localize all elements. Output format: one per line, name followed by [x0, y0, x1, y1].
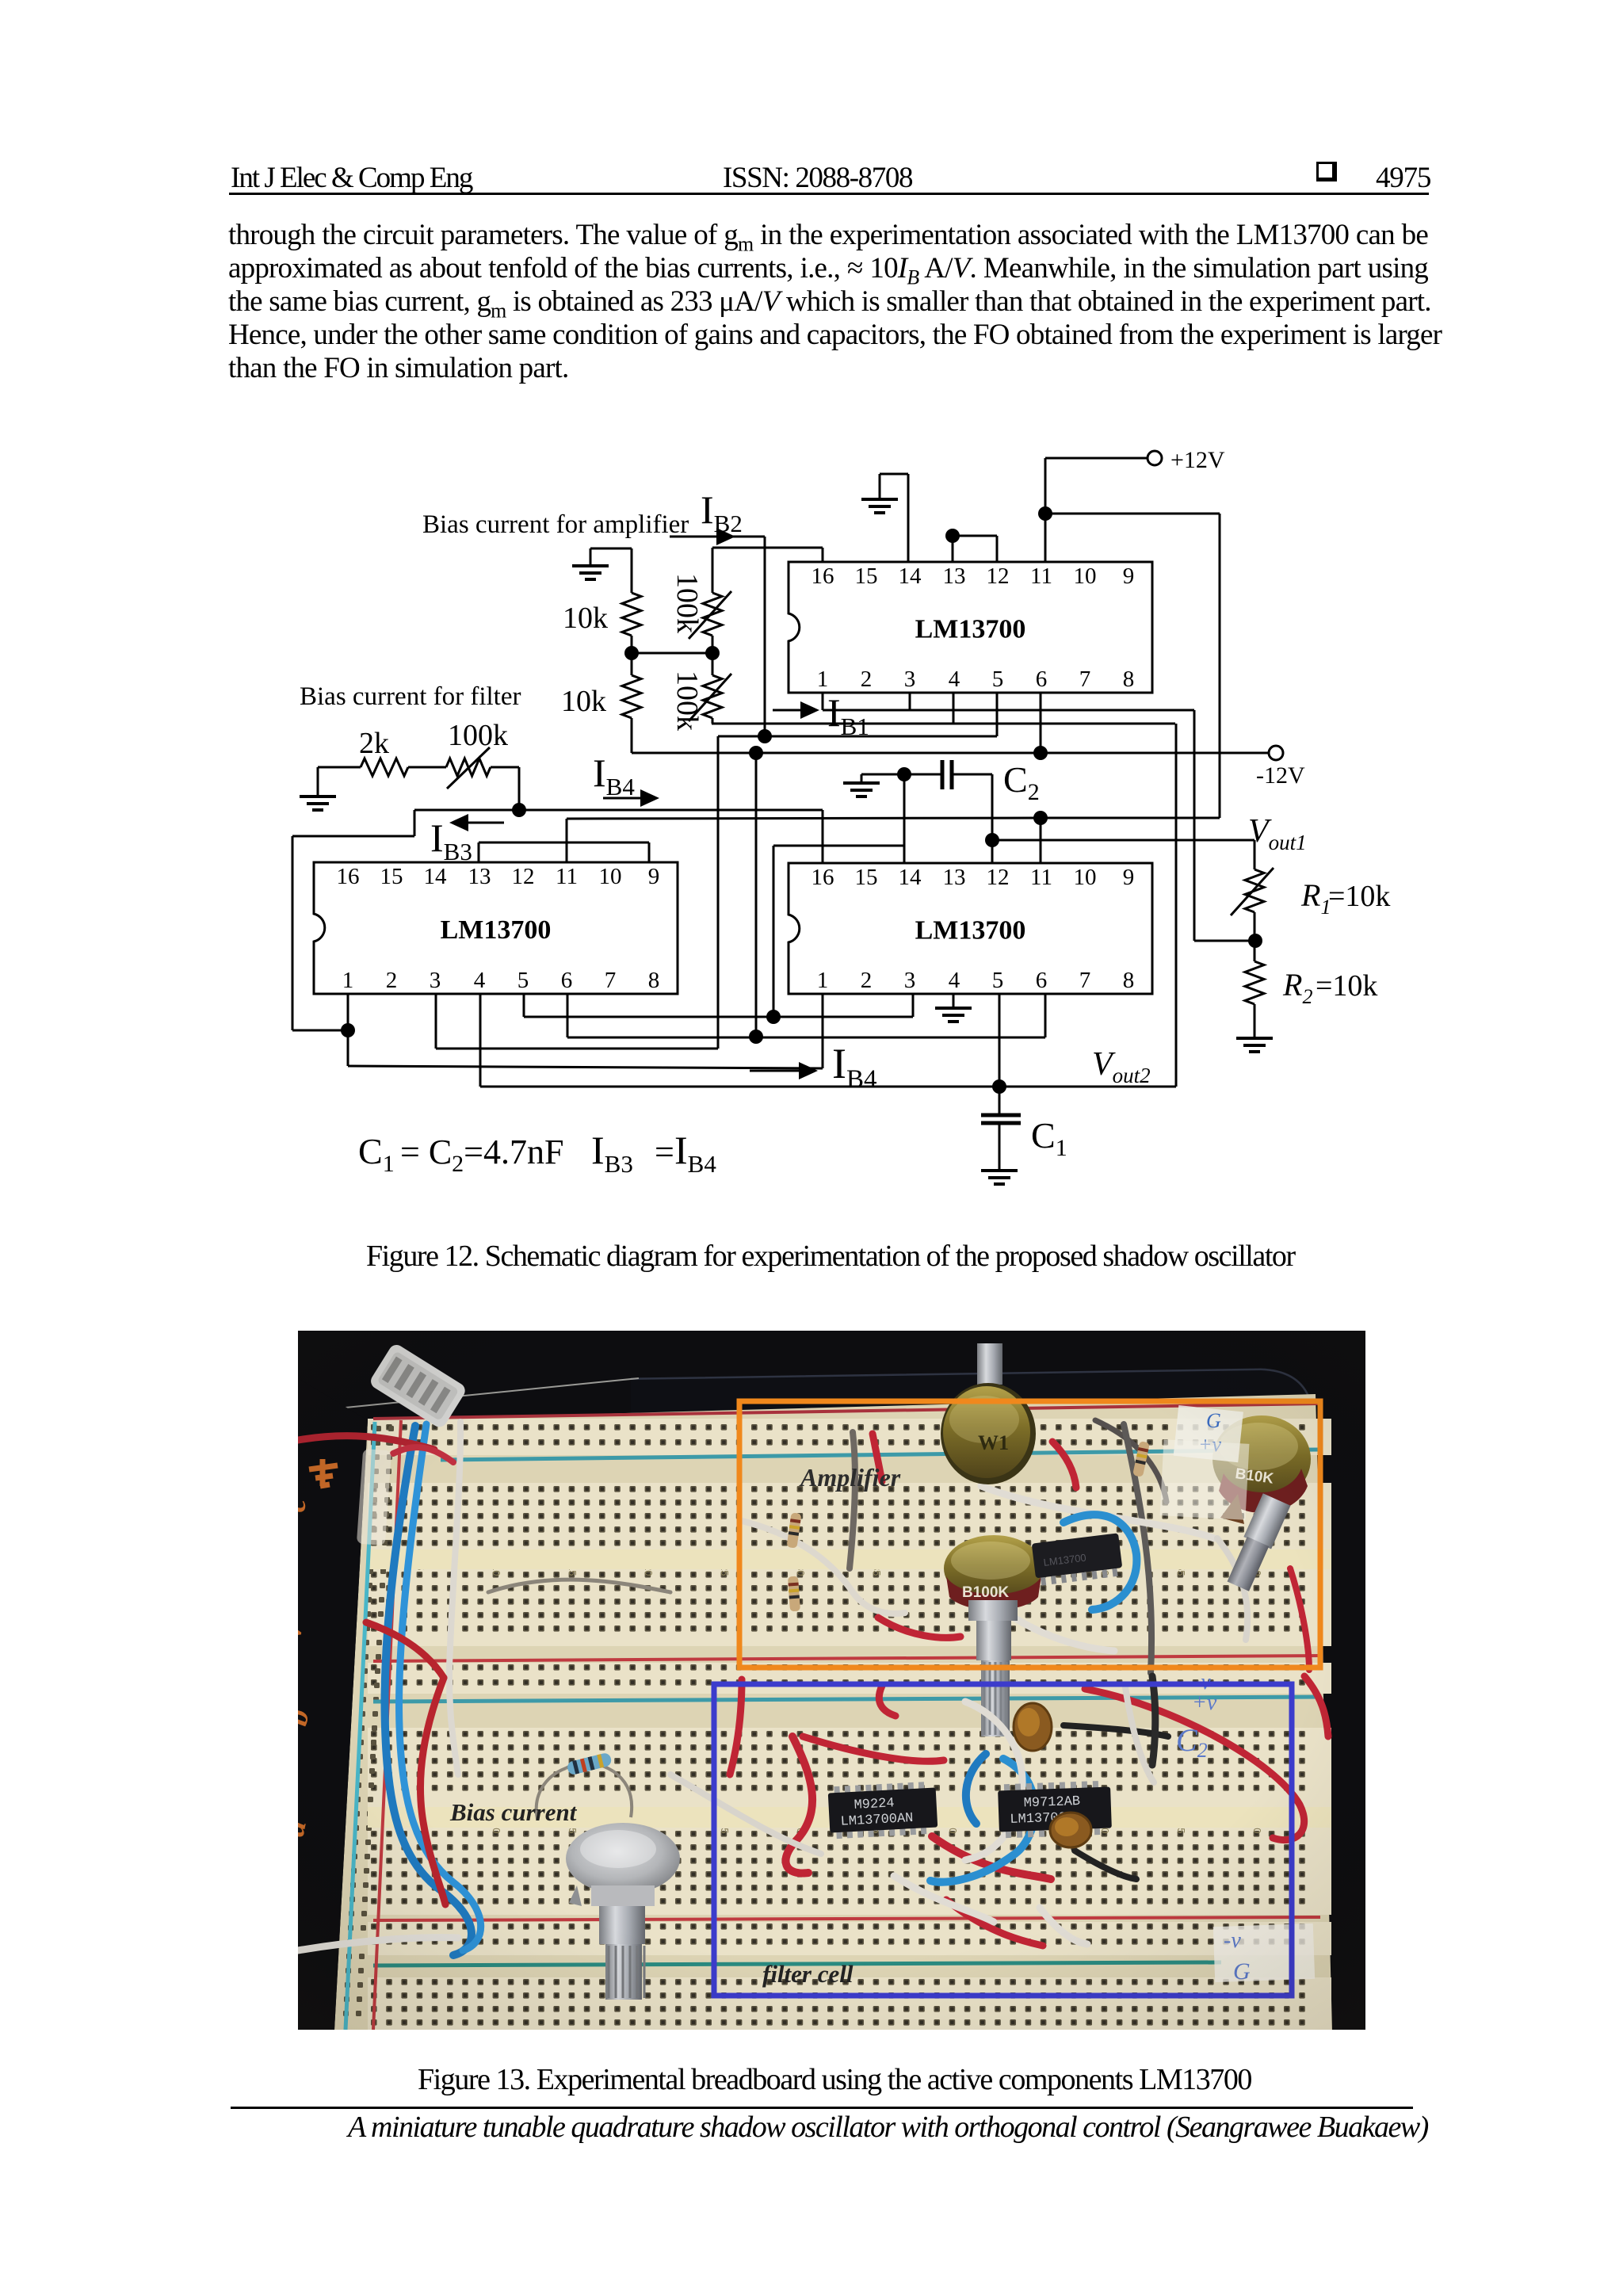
- svg-text:13: 13: [943, 563, 966, 589]
- svg-text:14: 14: [899, 865, 922, 890]
- svg-text:1: 1: [342, 968, 354, 993]
- svg-text:100k: 100k: [670, 573, 704, 633]
- svg-text:3: 3: [904, 968, 916, 993]
- svg-text:11: 11: [1030, 865, 1052, 890]
- svg-text:4: 4: [474, 968, 486, 993]
- svg-text:Bias current for filter: Bias current for filter: [300, 682, 521, 711]
- svg-text:100k: 100k: [670, 670, 704, 731]
- svg-text:7: 7: [605, 968, 617, 993]
- svg-text:9: 9: [1123, 865, 1135, 890]
- svg-text:15: 15: [380, 864, 403, 889]
- svg-text:12: 12: [987, 865, 1010, 890]
- svg-text:6: 6: [1036, 968, 1048, 993]
- svg-text:10: 10: [599, 864, 622, 889]
- svg-text:12: 12: [512, 864, 535, 889]
- svg-text:Vout1: Vout1: [1248, 813, 1307, 854]
- svg-text:5: 5: [992, 667, 1004, 692]
- svg-text:LM13700: LM13700: [441, 915, 552, 945]
- svg-text:10k: 10k: [563, 602, 608, 635]
- svg-text:2: 2: [861, 667, 873, 692]
- svg-text:6: 6: [1036, 667, 1048, 692]
- svg-text:13: 13: [468, 864, 491, 889]
- svg-text:13: 13: [943, 865, 966, 890]
- svg-text:2: 2: [861, 968, 873, 993]
- svg-text:4: 4: [949, 667, 960, 692]
- svg-text:IB1: IB1: [827, 690, 869, 740]
- svg-text:3: 3: [904, 667, 916, 692]
- svg-text:8: 8: [648, 968, 660, 993]
- svg-text:5: 5: [992, 968, 1004, 993]
- svg-text:11: 11: [1030, 563, 1052, 589]
- svg-text:10: 10: [1074, 563, 1097, 589]
- svg-text:12: 12: [987, 563, 1010, 589]
- svg-text:= C2=4.7nF: = C2=4.7nF: [400, 1133, 563, 1177]
- svg-text:16: 16: [337, 864, 360, 889]
- svg-text:+12V: +12V: [1170, 447, 1225, 473]
- svg-text:LM13700: LM13700: [915, 916, 1026, 946]
- svg-text:10: 10: [1074, 865, 1097, 890]
- svg-text:2: 2: [386, 968, 398, 993]
- svg-text:Vout2: Vout2: [1092, 1046, 1151, 1087]
- svg-text:R1: R1: [1300, 877, 1331, 919]
- svg-text:14: 14: [424, 864, 448, 889]
- svg-text:9: 9: [648, 864, 660, 889]
- svg-text:6: 6: [561, 968, 573, 993]
- svg-text:16: 16: [811, 865, 834, 890]
- svg-text:100k: 100k: [448, 719, 508, 752]
- svg-text:2k: 2k: [359, 727, 389, 760]
- svg-text:-12V: -12V: [1256, 762, 1305, 789]
- svg-text:IB3: IB3: [591, 1128, 633, 1178]
- svg-text:=10k: =10k: [1328, 880, 1390, 913]
- svg-text:10k: 10k: [561, 685, 606, 718]
- svg-text:8: 8: [1123, 667, 1135, 692]
- svg-text:14: 14: [899, 563, 922, 589]
- svg-text:11: 11: [556, 864, 578, 889]
- svg-text:1: 1: [817, 667, 829, 692]
- svg-text:1: 1: [817, 968, 829, 993]
- svg-text:3: 3: [430, 968, 441, 993]
- svg-text:7: 7: [1079, 968, 1091, 993]
- svg-text:R2: R2: [1282, 967, 1312, 1008]
- svg-text:16: 16: [811, 563, 834, 589]
- svg-text:IB4: IB4: [593, 751, 635, 800]
- svg-text:C1: C1: [358, 1131, 395, 1177]
- svg-text:8: 8: [1123, 968, 1135, 993]
- svg-text:IB4: IB4: [832, 1040, 877, 1094]
- svg-text:C1: C1: [1031, 1115, 1067, 1161]
- svg-text:LM13700: LM13700: [915, 615, 1026, 644]
- svg-text:15: 15: [855, 865, 878, 890]
- svg-text:IB2: IB2: [701, 487, 743, 537]
- svg-text:7: 7: [1079, 667, 1091, 692]
- svg-text:9: 9: [1123, 563, 1135, 589]
- svg-text:4: 4: [949, 968, 960, 993]
- svg-text:=: =: [655, 1133, 674, 1171]
- svg-text:Bias current for amplifier: Bias current for amplifier: [422, 510, 689, 539]
- svg-text:IB4: IB4: [674, 1128, 716, 1178]
- svg-text:15: 15: [855, 563, 878, 589]
- svg-text:C2: C2: [1003, 759, 1040, 805]
- svg-text:=10k: =10k: [1316, 969, 1377, 1003]
- svg-text:5: 5: [517, 968, 529, 993]
